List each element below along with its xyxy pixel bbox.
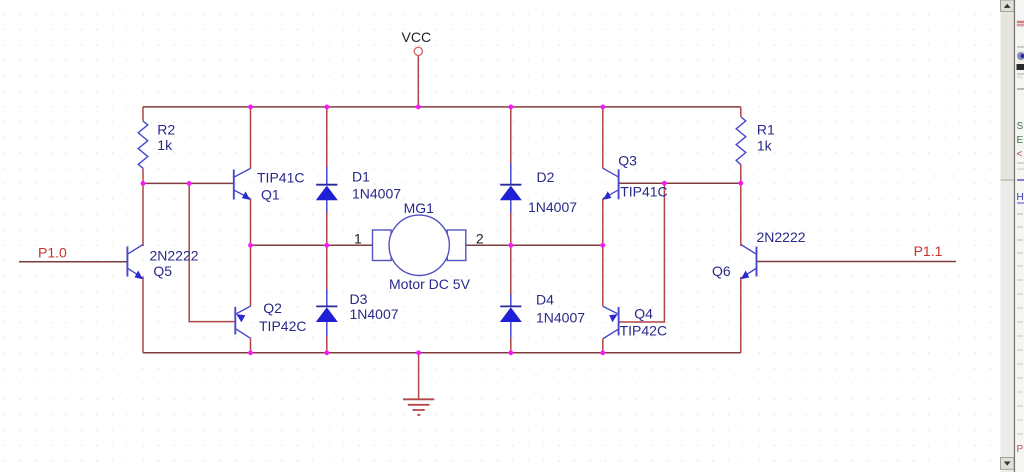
wire Q6 collector (740, 183, 742, 246)
svg-text:D1: D1 (352, 168, 370, 184)
wire Q4 emitter (602, 245, 604, 306)
transistor Q6 2N2222 (712, 229, 806, 279)
wire Q3 emitter (602, 199, 604, 246)
svg-text:D4: D4 (536, 292, 554, 308)
wire Q2 emitter (250, 245, 252, 306)
svg-text:TIP41C: TIP41C (257, 169, 304, 185)
svg-text:Q4: Q4 (634, 306, 653, 322)
svg-text:2N2222: 2N2222 (757, 229, 806, 245)
svg-text:Q3: Q3 (618, 152, 637, 168)
diode D3 1N4007 (316, 290, 399, 337)
svg-text:<: < (1017, 149, 1023, 160)
svg-text:Q2: Q2 (263, 300, 282, 316)
wire D3 top (326, 245, 328, 289)
resistor R2 (138, 121, 175, 168)
power terminal VCC (402, 29, 432, 56)
diode D4 1N4007 (500, 292, 585, 338)
svg-text:1N4007: 1N4007 (536, 310, 585, 326)
wire middle rail left (251, 244, 373, 246)
transistor Q5 2N2222 (127, 245, 198, 280)
junction dots middle rail (248, 243, 605, 248)
svg-text:S: S (1017, 121, 1024, 132)
wire Q3 collector (602, 107, 604, 168)
wire bottom rail (143, 352, 741, 354)
wire Q4 collector (602, 339, 604, 353)
svg-text:TIP41C: TIP41C (620, 184, 667, 200)
svg-text:R1: R1 (757, 122, 775, 138)
wire D1 top (326, 107, 328, 167)
wire Q1 emitter (250, 199, 252, 246)
wire D1 bottom (326, 213, 328, 246)
svg-text:TIP42C: TIP42C (620, 322, 667, 338)
junction dots top rail (248, 105, 605, 110)
diode D2 1N4007 (500, 163, 577, 215)
svg-text:Q6: Q6 (712, 263, 731, 279)
svg-text:D2: D2 (537, 169, 555, 185)
wire Q5 emitter (142, 277, 144, 353)
ground (403, 399, 434, 415)
right toolbar sliver (1016, 0, 1024, 472)
wire Q6 emitter (740, 277, 742, 353)
transistor Q4 TIP42C (603, 306, 667, 339)
svg-text:VCC: VCC (402, 29, 432, 45)
transistor Q3 TIP41C (603, 152, 668, 199)
svg-text:P: P (1017, 444, 1024, 455)
wire D4 top (510, 245, 512, 294)
wire Q2 base (189, 183, 235, 321)
svg-text:1: 1 (354, 230, 362, 246)
svg-text:1N4007: 1N4007 (528, 199, 577, 215)
wire D2 bottom (510, 213, 512, 245)
svg-text:R2: R2 (157, 121, 175, 137)
wire Q2 collector (250, 338, 252, 353)
svg-text:P1.0: P1.0 (38, 245, 67, 261)
svg-text:Q5: Q5 (153, 263, 172, 279)
wire D2 top (510, 107, 512, 163)
wire middle rail right (466, 244, 603, 246)
wire VCC drop (417, 56, 419, 107)
junction dots right base bus (662, 181, 743, 186)
svg-text:E: E (1017, 135, 1024, 146)
wire D3 bottom (326, 337, 328, 353)
svg-text:P1.1: P1.1 (914, 243, 943, 259)
wire ground drop (418, 353, 420, 399)
wire P1.1 input (757, 261, 956, 263)
wire R2 stubs (142, 107, 144, 121)
svg-text:MG1: MG1 (404, 200, 435, 216)
svg-text:Q1: Q1 (261, 186, 280, 202)
scrollbar (1001, 0, 1015, 472)
svg-text:1k: 1k (757, 138, 773, 154)
svg-text:H: H (1017, 192, 1024, 203)
wire Q4 base (619, 183, 664, 322)
svg-text:2N2222: 2N2222 (150, 247, 199, 263)
wire Q1 collector (250, 107, 252, 168)
svg-text:D3: D3 (350, 291, 368, 307)
wire P1.0 input (19, 261, 127, 263)
junction dots bottom rail (248, 350, 605, 355)
wire D4 bottom (510, 338, 512, 353)
svg-text:1k: 1k (157, 137, 173, 153)
wire left base bus (143, 182, 234, 184)
svg-text:1N4007: 1N4007 (352, 186, 401, 202)
wire top rail (143, 106, 741, 108)
junction dots left base bus (141, 181, 192, 186)
svg-text:Motor DC 5V: Motor DC 5V (389, 276, 471, 292)
diode D1 1N4007 (316, 167, 401, 213)
transistor Q1 TIP41C (234, 168, 305, 202)
wire R1 stubs (740, 107, 742, 117)
motor MG1 (373, 200, 471, 292)
wire Q5 collector (142, 183, 144, 246)
svg-text:1N4007: 1N4007 (350, 306, 399, 322)
resistor R1 (736, 117, 775, 165)
svg-text:TIP42C: TIP42C (259, 318, 306, 334)
wire right base bus (619, 182, 740, 184)
transistor Q2 TIP42C (235, 300, 306, 338)
svg-text:2: 2 (476, 230, 484, 246)
